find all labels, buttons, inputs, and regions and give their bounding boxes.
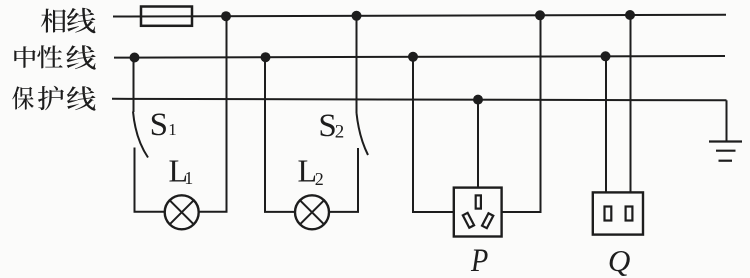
label text 线 (phase line label, char 2) [67,8,95,33]
socket P body (three-hole socket) [454,188,502,237]
svg-text:2: 2 [335,122,345,143]
wire: protective earth line (保护线) horizontal bus [112,99,727,101]
svg-text:S: S [150,107,168,143]
label text 中 (neutral line label, char 1) [14,46,36,68]
socket Q right slot [626,207,633,221]
wire: phase dot down to socket Q right terminal [630,15,632,193]
socket P earth slot (top centre) [476,195,481,208]
node: junction dot on phase line above socket P branch [535,10,545,20]
node: junction dot on neutral line above switch S1 branch [130,53,140,63]
lamp L2 bulb circle [295,195,329,229]
wire: protective line corner down to earth electrode [726,100,728,141]
wire: neutral dot down to socket Q left terminal [605,56,607,193]
ground symbol bar 2 (middle) [716,150,736,152]
fuse F1 on phase line [141,7,192,26]
socket P live slot (bottom right, slanted) [482,213,493,228]
switch S1 blade (open) [133,112,148,158]
lamp L2 bulb X cross [300,200,324,224]
label text 线 (neutral line label, char 3) [66,45,95,69]
socket Q body (two-hole socket) [593,192,643,234]
lamp L1 bulb circle [165,195,199,229]
label text 性 (neutral line label, char 2) [37,45,62,68]
node: junction dot on neutral line above lamp L2 branch [261,52,271,62]
node: junction dot on neutral line above socket Q branch [601,51,611,61]
label text 保 (protective line label, char 1) [12,86,34,109]
wire: lamp L1 right lead up to phase line junction [198,16,226,212]
wire: switch S1 lower contact down to lamp L1 left lead [135,148,166,212]
wire: protective dot down to socket P earth terminal (top pin) [477,100,479,188]
node: junction dot on phase line above lamp L1 branch [221,11,231,21]
svg-text:1: 1 [168,120,177,139]
socket P neutral slot (bottom left, slanted) [463,213,474,228]
node: junction dot on protective line above socket P branch [473,95,483,105]
wire: lamp L2 right lead up to switch S2 lower contact [329,148,359,212]
wire: neutral line (中性线) horizontal bus [114,56,725,58]
lamp L1 bulb X cross [170,200,194,224]
label text 相 (phase line label, char 1) [41,9,66,33]
svg-text:2: 2 [315,169,324,189]
ground symbol bar 1 (top, longest) [709,140,742,142]
switch S2 blade (open) [357,113,369,155]
svg-text:1: 1 [184,168,193,188]
label text 护 (protective line label, char 2) [38,86,64,110]
wire: neutral dot down to lamp L2 left lead [265,57,296,212]
node: junction dot on neutral line above socket P branch [408,52,418,62]
wire: neutral dot down to switch S1 upper contact [133,58,135,113]
wire: neutral dot down and right to socket P left terminal [413,57,453,212]
wire: phase dot down and left to socket P right terminal [502,15,541,212]
ground symbol bar 3 (bottom, shortest) [719,160,733,162]
wire: phase dot down to switch S2 upper contact [356,16,358,113]
node: junction dot on phase line above switch S2 branch [352,11,362,21]
svg-text:P: P [470,243,488,278]
socket Q left slot [605,207,612,221]
label text 线 (protective line label, char 3) [67,86,96,110]
svg-text:Q: Q [608,243,631,278]
node: junction dot on phase line above socket Q branch [625,10,635,20]
wire: phase line (相线) horizontal bus [113,15,726,17]
